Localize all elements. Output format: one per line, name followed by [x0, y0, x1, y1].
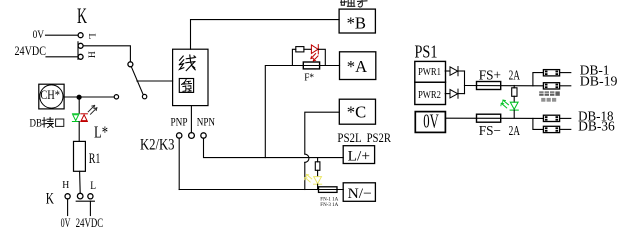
jumper bar under middle and L terminals — [76, 200, 94, 202]
svg-text:FS−: FS− — [479, 124, 501, 139]
wire NPN down and right (L line) — [204, 138, 344, 157]
red LED (fuse blown indicator) — [311, 45, 318, 61]
terminal block DB-1 — [543, 70, 570, 76]
box *B — [339, 9, 375, 33]
wire bus to FS+ — [465, 85, 544, 87]
terminal block DB-36 — [543, 126, 570, 132]
terminal circle common — [189, 133, 195, 139]
svg-text:K: K — [77, 3, 87, 28]
diode D2 — [450, 89, 458, 98]
terminal block DB-19 — [543, 83, 570, 89]
diode D2 wire — [445, 93, 450, 95]
char 口 — [56, 119, 64, 126]
jumper bracket between middle and H terminals — [77, 42, 79, 60]
svg-text:0V: 0V — [423, 111, 439, 133]
wire L-line up to F* branch — [265, 66, 339, 158]
wire yellow LED to N line — [317, 184, 319, 189]
svg-text:*B: *B — [347, 14, 366, 33]
svg-text:FN-3 1A: FN-3 1A — [320, 203, 338, 208]
box N/- — [343, 183, 375, 202]
riser to DB-1 — [533, 73, 544, 86]
diode OR bus — [464, 71, 466, 94]
terminal circle PNP — [177, 133, 182, 138]
char 线 — [179, 55, 195, 71]
svg-text:2A: 2A — [509, 69, 521, 84]
svg-text:L: L — [90, 179, 96, 192]
green LED power indicator — [501, 100, 518, 110]
wire lever to coil box — [137, 80, 173, 82]
bottom terminal circle L — [88, 194, 93, 199]
junction dot node CH — [77, 95, 82, 100]
wire green LED to 0V line — [513, 110, 515, 118]
svg-text:*A: *A — [347, 57, 367, 76]
fuse FS- body — [477, 114, 501, 122]
svg-text:24VDC: 24VDC — [76, 215, 104, 230]
wire 0V box to FS- — [446, 117, 543, 119]
char 接 — [42, 117, 53, 127]
sensor CH* box — [39, 84, 64, 109]
diode D1 out wire — [458, 70, 465, 72]
fuse FS+ body — [477, 82, 501, 90]
wire element to red LED — [304, 48, 312, 50]
wire R1 to bottom terminal — [79, 171, 82, 193]
power indicator resistor — [317, 158, 319, 162]
wire coil top to *B — [191, 20, 340, 50]
N line wire — [179, 189, 343, 191]
yellow LED power indicator — [305, 174, 322, 184]
terminal block DB-18 — [543, 115, 570, 121]
svg-text:DB-36: DB-36 — [578, 119, 615, 134]
wire L terminal down — [89, 201, 91, 215]
wire junction down to LED — [78, 97, 80, 113]
box *C — [339, 99, 375, 124]
svg-text:2A: 2A — [509, 124, 521, 139]
svg-text:K2/K3: K2/K3 — [140, 136, 175, 153]
box PWR2 — [415, 82, 446, 104]
LED L* green half (down diode) — [72, 114, 79, 122]
wire H terminal down — [67, 199, 69, 216]
svg-text:PWR1: PWR1 — [418, 66, 441, 78]
svg-text:0V: 0V — [33, 28, 45, 41]
resistor R1 — [74, 141, 86, 171]
diode D2 out wire — [458, 93, 465, 95]
LED L* emission arrows — [88, 105, 97, 114]
svg-text:L: L — [86, 33, 96, 39]
svg-text:N/−: N/− — [348, 186, 372, 202]
svg-text:R1: R1 — [89, 151, 101, 167]
char 圈 — [179, 79, 193, 93]
wire LED to resistor R1 — [78, 122, 80, 142]
terminal circle 0V (L) — [78, 33, 83, 38]
svg-text:L/+: L/+ — [348, 148, 370, 164]
terminal circle NPN — [201, 133, 206, 138]
svg-text:K: K — [46, 190, 55, 207]
switch S1 top contact — [128, 62, 133, 67]
svg-text:24VDC: 24VDC — [15, 43, 47, 58]
wire hop over L line — [305, 154, 309, 162]
bottom terminal circle middle — [77, 193, 83, 199]
svg-text:DB-19: DB-19 — [580, 75, 618, 90]
switch S1 right contact — [142, 94, 146, 98]
svg-text:PS2R: PS2R — [367, 131, 392, 145]
svg-text:PWR2: PWR2 — [418, 89, 441, 101]
wire PNP down to N line — [178, 138, 180, 189]
box 0V — [415, 112, 445, 133]
wire CH* to switch left contact — [64, 96, 114, 98]
svg-text:PS1: PS1 — [415, 42, 438, 62]
svg-text:0V: 0V — [61, 215, 71, 230]
green LED branch resistor — [513, 86, 515, 88]
svg-text:H: H — [62, 180, 69, 191]
svg-text:F*: F* — [304, 73, 314, 84]
svg-text:CH*: CH* — [40, 88, 60, 102]
wire 24VDC to terminal — [46, 56, 78, 58]
svg-text:DB: DB — [30, 116, 43, 129]
svg-text:NPN: NPN — [197, 116, 215, 128]
terminal circle 24VDC (H) — [78, 54, 83, 59]
svg-text:*C: *C — [347, 103, 366, 122]
box PWR1 — [415, 61, 446, 82]
fuse F* body — [303, 62, 319, 69]
wire coil bottom to PNP/NPN common — [190, 106, 192, 133]
svg-text:H: H — [86, 51, 96, 58]
switch S1 lever — [131, 67, 143, 95]
wire common terminal to switch S1 — [83, 46, 130, 62]
F* indicator branch left riser — [292, 49, 295, 65]
diode D1 — [450, 67, 458, 76]
switch S1 left contact — [114, 95, 118, 99]
LED L* red half (up diode) — [81, 114, 88, 122]
svg-text:PNP: PNP — [171, 117, 188, 129]
riser to DB-36 — [533, 118, 544, 129]
F* indicator series element — [296, 47, 304, 52]
F* branch right riser — [318, 49, 325, 65]
svg-text:PS2L: PS2L — [337, 131, 361, 145]
bottom terminal circle H — [65, 194, 70, 199]
tiny label 电缆设置/短路槽 — [539, 91, 560, 101]
box *A — [340, 52, 376, 80]
box L/+ — [343, 146, 374, 164]
wire hop to N line — [304, 162, 306, 189]
coil box 线圈 — [173, 49, 208, 105]
diode D1 wire — [445, 70, 450, 72]
fuse FN body — [319, 187, 338, 193]
svg-text:L*: L* — [94, 123, 108, 142]
wire *C to N line (with hop) — [305, 112, 340, 154]
terminal circle middle (common) — [78, 43, 83, 48]
label 端子 (cropped at top) — [341, 0, 367, 7]
sensor CH* circle — [40, 85, 63, 108]
wire 0V to terminal — [46, 34, 79, 36]
